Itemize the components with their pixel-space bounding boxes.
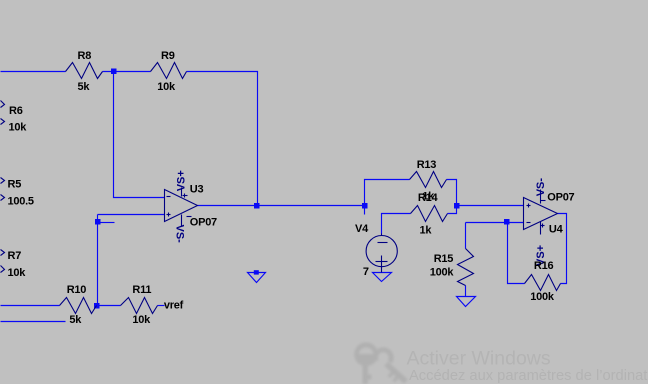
svg-text:R16: R16 <box>534 260 554 272</box>
key 2 shaft <box>384 362 408 384</box>
junction stub node (97,222) <box>95 219 101 225</box>
wire R13 right to corner down to node <box>447 180 457 206</box>
key 2 teeth <box>388 371 395 378</box>
U3 noninverting input mark <box>167 214 171 216</box>
wire mid node to U4 plus input <box>457 205 524 207</box>
svg-text:R13: R13 <box>417 159 437 171</box>
svg-text:10k: 10k <box>9 121 28 133</box>
svg-text:100k: 100k <box>530 291 555 303</box>
wire R16 right to feedback corner up to U4 output <box>558 214 567 284</box>
wire feedback node down to R16 <box>508 223 525 284</box>
svg-text:VS-: VS- <box>535 178 547 197</box>
V4 top pin stub <box>381 234 383 236</box>
resistor R6 partial chevrons at left edge <box>1 101 5 108</box>
U4 VS+ pin plus mark <box>541 225 545 227</box>
wire R9 right to top-right corner and down to output node <box>187 72 258 206</box>
U3 VS+ pin stub <box>181 188 183 197</box>
U3 VS- pin stub <box>181 215 183 227</box>
svg-text:10k: 10k <box>132 314 151 326</box>
V4 minus mark <box>378 242 388 244</box>
wire R15 bottom to ground <box>465 286 467 297</box>
wire top row into R8 <box>1 71 66 73</box>
V4 plus mark <box>376 261 388 263</box>
junction U3 output node <box>254 203 260 209</box>
svg-text:OP07: OP07 <box>547 192 574 204</box>
key 1 (upright): round head <box>354 342 378 366</box>
junction mid node right <box>454 203 460 209</box>
resistor R14 zigzag <box>411 206 448 222</box>
wire bottom row into R10 <box>1 305 60 307</box>
svg-text:Activer Windows: Activer Windows <box>407 347 551 369</box>
U4 noninverting input mark <box>527 205 531 207</box>
wire U3 output to mid node and on to right node <box>198 205 365 207</box>
svg-text:Accédez aux paramètres de l’or: Accédez aux paramètres de l’ordinat <box>409 368 647 384</box>
svg-text:5k: 5k <box>69 314 82 326</box>
U4 VS+ pin stub <box>540 222 542 235</box>
svg-text:R8: R8 <box>78 50 92 62</box>
svg-text:U4: U4 <box>549 224 564 236</box>
junction R10/R11 node <box>94 303 100 309</box>
svg-text:OP07: OP07 <box>190 217 217 229</box>
svg-text:10k: 10k <box>157 81 176 93</box>
wire R11 to vref label <box>158 305 165 307</box>
svg-text:5k: 5k <box>78 81 91 93</box>
ground below V4 <box>373 273 392 282</box>
junction U4 feedback node <box>504 219 510 225</box>
svg-text:R11: R11 <box>132 284 151 296</box>
key 2 (diagonal, behind): crescent head <box>376 350 392 362</box>
svg-text:100.5: 100.5 <box>8 196 34 208</box>
svg-text:R7: R7 <box>8 250 22 262</box>
svg-text:10k: 10k <box>8 267 27 279</box>
svg-text:1k: 1k <box>420 225 433 237</box>
U3 VS- pin minus mark <box>187 216 192 218</box>
junction mid node left <box>362 203 368 209</box>
key 1 shaft <box>363 363 368 384</box>
svg-text:100k: 100k <box>430 267 455 279</box>
svg-text:1k: 1k <box>422 190 435 202</box>
U4 VS- pin stub <box>540 190 542 204</box>
ground floating flag <box>248 273 266 283</box>
gap between the two keys <box>371 361 383 373</box>
wire dangling lower-left <box>1 321 66 323</box>
resistor R9 zigzag <box>151 63 187 79</box>
wire R15 top corner to U4 inverting input <box>466 222 524 224</box>
resistor R7 partial chevrons at left edge <box>1 250 5 256</box>
junction R8/R9 node <box>111 69 117 75</box>
resistor R11 zigzag <box>121 298 158 314</box>
wire vertical from corner down to R10/R11 node <box>97 215 99 306</box>
resistor R10 zigzag <box>60 298 97 314</box>
U3 VS+ pin plus mark <box>183 195 188 197</box>
svg-text:R6: R6 <box>9 105 23 117</box>
resistor R16 zigzag <box>525 275 561 291</box>
svg-text:VS+: VS+ <box>175 170 187 191</box>
wire stub at node (97,222) <box>100 222 115 224</box>
wire stub below left node <box>364 206 366 215</box>
wire node up and over to R13 <box>365 180 410 206</box>
wire R14 right to corner up to node <box>448 206 457 214</box>
wire U3 noninverting input from left corner <box>98 214 165 216</box>
ground below R15 <box>457 297 476 307</box>
resistor R5 partial chevrons at left edge <box>1 178 5 184</box>
svg-text:R10: R10 <box>67 284 87 296</box>
U3 inverting input mark <box>167 196 171 198</box>
svg-text:VS-: VS- <box>174 225 186 244</box>
svg-text:vref: vref <box>164 300 184 312</box>
wire V4 top to R14 left lead <box>382 214 411 234</box>
U4 inverting input mark <box>527 222 531 224</box>
wire R8 to R9 through junction <box>103 71 151 73</box>
ground floating flag pin square <box>254 270 259 274</box>
svg-text:7: 7 <box>363 266 369 278</box>
svg-text:R15: R15 <box>434 253 454 265</box>
U4 VS- pin minus mark <box>541 200 546 202</box>
resistor R13 zigzag <box>410 172 447 188</box>
wire feedback node down to U3 inverting input <box>114 74 165 198</box>
wire R10 to R11 through node <box>97 305 121 307</box>
svg-text:V4: V4 <box>355 223 369 235</box>
svg-text:U3: U3 <box>190 184 204 196</box>
resistor R15 zigzag (vertical) <box>458 249 474 286</box>
resistor R8 zigzag <box>66 63 103 79</box>
svg-text:R9: R9 <box>161 50 175 62</box>
wire down to R15 <box>465 223 467 249</box>
svg-text:R5: R5 <box>8 178 22 190</box>
